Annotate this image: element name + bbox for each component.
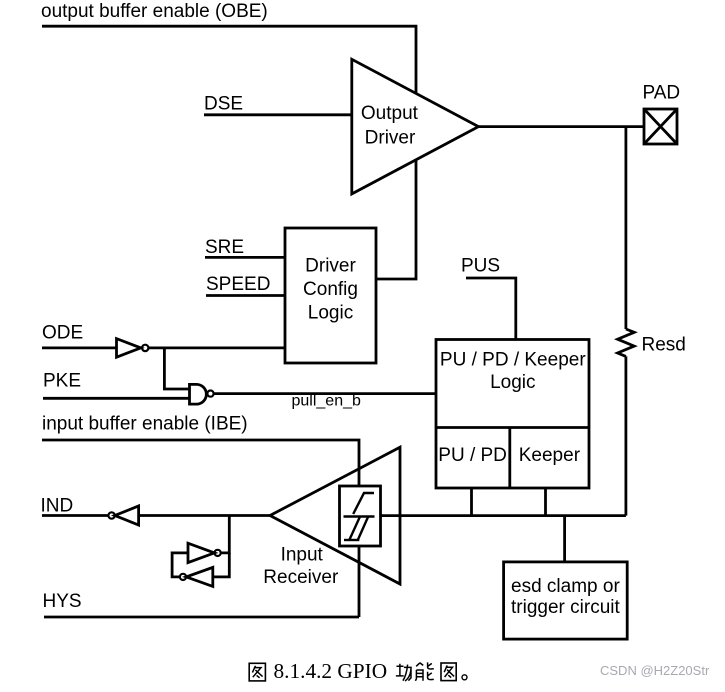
block esd clamp or trigger circuit (504, 562, 628, 639)
wire junction down from PAD wire to Resd (625, 127, 628, 329)
svg-text:Driver: Driver (365, 128, 416, 149)
wire HYS input (44, 616, 359, 619)
svg-text:pull_en_b: pull_en_b (292, 393, 362, 410)
svg-text:DSE: DSE (204, 94, 243, 115)
wire Output Driver apex to PAD (479, 125, 645, 128)
wire feedback left side up to top inverter input (172, 553, 188, 577)
wire below resistor to output rail (625, 356, 628, 515)
divider between PU/PD and Keeper (508, 428, 511, 489)
svg-text:HYS: HYS (43, 591, 82, 612)
wire feedback right side down to bottom inverter input (213, 553, 230, 577)
caption: 图 8.1.4.2 GPIO 功能图。 (249, 659, 467, 683)
svg-text:CSDN @H2Z20Str: CSDN @H2Z20Str (600, 663, 710, 678)
hanzi 图 (second) (441, 663, 456, 681)
wire inverter output to Driver Config Logic (148, 346, 285, 349)
wire OBE horizontal then down into Output Driver top edge (42, 26, 416, 93)
wire inverter to Input Receiver apex (139, 514, 270, 517)
svg-text:PKE: PKE (43, 371, 81, 392)
wire PKE input (43, 397, 190, 400)
svg-text:trigger circuit: trigger circuit (511, 597, 620, 618)
svg-text:Output: Output (361, 103, 419, 124)
wire SRE input (205, 256, 285, 259)
inverter on IND (pointing left) (108, 512, 114, 518)
resistor Resd zigzag (618, 329, 635, 356)
svg-text:SRE: SRE (205, 237, 244, 258)
wire pull_en_b to PU/PD/Keeper Logic (214, 392, 436, 395)
hanzi 能 (415, 662, 433, 680)
nand gate PKE/ODE (190, 384, 207, 404)
svg-text:input buffer enable (IBE): input buffer enable (IBE) (42, 414, 248, 435)
svg-text:Logic: Logic (308, 303, 353, 324)
svg-text:Input: Input (281, 544, 324, 565)
svg-text:Logic: Logic (490, 372, 535, 393)
hanzi 功 (396, 664, 411, 681)
wire junction down to esd clamp (563, 516, 566, 562)
fullwidth period 。 (462, 675, 467, 680)
pad symbol (box with X) (644, 109, 677, 144)
svg-text:PU / PD: PU / PD (438, 445, 507, 466)
svg-text:IND: IND (41, 496, 74, 517)
wire SPEED input (206, 294, 285, 297)
schmitt hysteresis symbol (344, 493, 375, 540)
svg-text:Driver: Driver (305, 256, 356, 277)
svg-text:SPEED: SPEED (206, 274, 270, 295)
svg-text:PUS: PUS (461, 256, 500, 277)
op-amp Input Receiver (pointing left) (270, 447, 400, 584)
block Driver Config Logic (285, 228, 376, 363)
wire IND output (42, 514, 108, 517)
wire IBE right then down to HYS line (42, 440, 359, 617)
svg-text:PAD: PAD (643, 83, 681, 104)
wire Keeper stub down (544, 488, 547, 516)
svg-text:Resd: Resd (642, 335, 686, 356)
svg-text:ODE: ODE (42, 323, 83, 344)
divider between logic and sub blocks (436, 426, 589, 429)
svg-text:8.1.4.2 GPIO: 8.1.4.2 GPIO (274, 659, 388, 683)
wire PUS down to PU/PD/Keeper Logic (466, 278, 516, 340)
inverter feedback top (pointing right) (188, 543, 214, 562)
block PU / PD / Keeper Logic (436, 340, 589, 489)
schmitt trigger box (340, 486, 381, 546)
svg-text:PU / PD / Keeper: PU / PD / Keeper (440, 350, 586, 371)
inverter feedback bottom (pointing left) (186, 567, 213, 586)
wire Input Receiver output to right rail (381, 514, 626, 517)
wire DSE to Output Driver input (204, 113, 352, 116)
svg-text:Receiver: Receiver (263, 567, 339, 588)
wire Driver Config Logic to Output Driver bottom edge (376, 160, 416, 279)
svg-text:Keeper: Keeper (519, 445, 581, 466)
wire PU/PD stub down (470, 488, 473, 516)
wire branch down to NAND input (164, 348, 189, 389)
wire feedback branch down (221, 516, 230, 553)
wire ODE input (42, 346, 117, 349)
svg-text:output buffer enable (OBE): output buffer enable (OBE) (41, 1, 268, 22)
inverter on ODE (117, 339, 141, 358)
svg-text:esd clamp or: esd clamp or (511, 576, 620, 597)
hanzi 图 (first) (249, 663, 265, 681)
svg-text:Config: Config (303, 279, 358, 300)
op-amp Output Driver (352, 59, 479, 194)
